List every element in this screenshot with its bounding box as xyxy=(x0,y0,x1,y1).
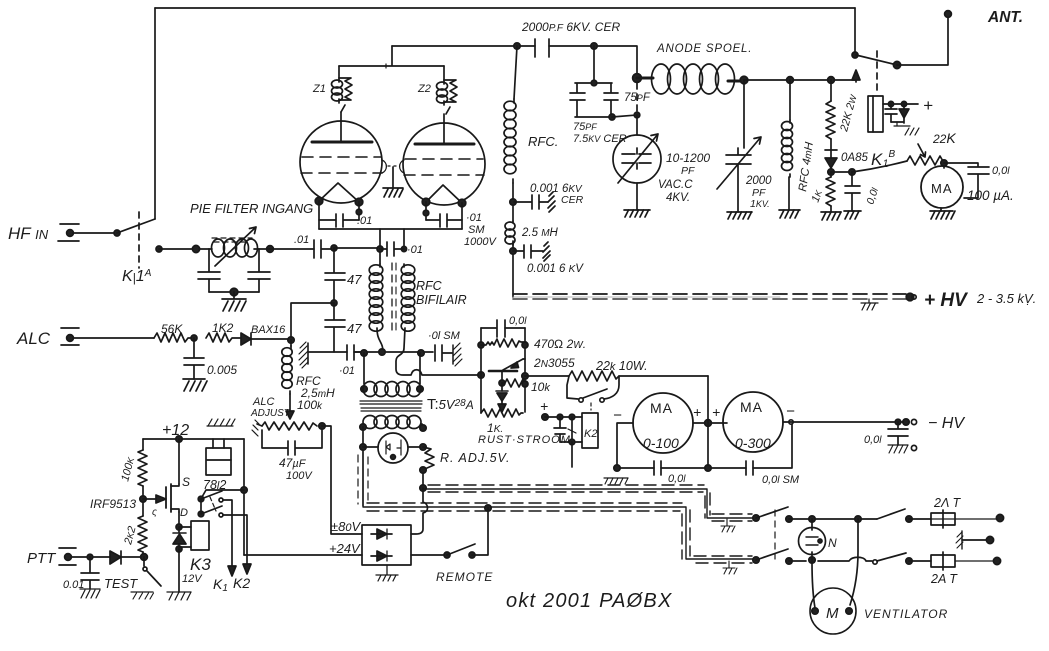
rectifier box 80/24 xyxy=(362,525,411,565)
capacitor 0,01 SM MA2 xyxy=(746,461,753,475)
svg-text:·01: ·01 xyxy=(407,244,423,256)
node K2 plus terminal xyxy=(542,414,548,420)
svg-text:REMOTE: REMOTE xyxy=(436,570,493,584)
ground hatched .01 SM xyxy=(453,343,462,366)
svg-text:ς: ς xyxy=(152,507,157,518)
connector ALC J2 xyxy=(61,328,154,345)
potentiometer 22K xyxy=(907,144,944,168)
svg-text:BAX16: BAX16 xyxy=(251,324,286,336)
capacitor 0,01 meter xyxy=(944,163,989,198)
svg-text:100k: 100k xyxy=(297,398,323,412)
ground grid-leak hatched xyxy=(299,342,308,368)
node gate xyxy=(140,496,146,502)
svg-text:.01: .01 xyxy=(357,215,372,227)
svg-text:.01: .01 xyxy=(294,234,309,246)
svg-text:D: D xyxy=(180,507,188,519)
wire filament right xyxy=(420,444,426,450)
resistor 56K xyxy=(154,333,196,342)
node +HV terminal xyxy=(906,293,914,301)
diode bias xyxy=(496,383,508,412)
potentiometer 1K ruststroom xyxy=(481,409,523,417)
switch 22K bypass xyxy=(567,376,619,410)
node plate feed xyxy=(514,43,520,49)
svg-text:2N3055: 2N3055 xyxy=(533,356,575,370)
ground pi filter xyxy=(222,292,246,311)
svg-text:R. ADJ.5V.: R. ADJ.5V. xyxy=(440,451,510,465)
svg-text:+: + xyxy=(540,398,548,414)
svg-text:M: M xyxy=(826,605,839,622)
relay coil K1B xyxy=(868,96,883,132)
node pot right xyxy=(319,423,325,429)
svg-text:− HV: − HV xyxy=(928,415,965,432)
lamp N neon xyxy=(799,519,826,560)
potentiometer ALC ADJUST xyxy=(252,411,317,436)
ground 2000PF xyxy=(727,212,752,219)
relay K1B dashed linkage xyxy=(876,51,878,95)
svg-text:IRF9513: IRF9513 xyxy=(90,497,136,511)
wire drain chain xyxy=(178,512,180,527)
svg-text:75PF: 75PF xyxy=(573,121,597,133)
node 75pF top xyxy=(593,46,595,83)
wire to 22K 10W xyxy=(525,375,569,377)
svg-text:±80V: ±80V xyxy=(331,519,362,534)
svg-text:1K.: 1K. xyxy=(487,421,503,435)
svg-text:100 µA.: 100 µA. xyxy=(967,188,1014,203)
svg-text:ANODE SPOEL.: ANODE SPOEL. xyxy=(656,43,752,55)
wire to pi filter xyxy=(159,248,209,250)
svg-text:−: − xyxy=(613,407,622,424)
switch fan lower xyxy=(873,553,931,564)
wire meters bottom rail xyxy=(617,424,792,468)
svg-text:BIFILAIR: BIFILAIR xyxy=(416,293,467,307)
node diode out xyxy=(828,169,834,175)
svg-text:N: N xyxy=(828,536,837,550)
ground meter xyxy=(930,211,955,219)
node 47 top junction xyxy=(331,245,337,251)
wire cathode rail xyxy=(319,228,462,230)
wire diode node right xyxy=(831,171,852,173)
capacitor .01 SM xyxy=(435,345,452,361)
capacitor pi input xyxy=(198,249,220,292)
svg-text:·0l SM: ·0l SM xyxy=(428,330,461,342)
svg-text:12V: 12V xyxy=(182,573,203,585)
node ANT relay pivot xyxy=(852,52,858,58)
svg-text:+: + xyxy=(712,404,720,420)
transformer T secondary xyxy=(360,416,426,432)
svg-text:4KV.: 4KV. xyxy=(666,192,690,204)
capacitor 0,01 bias xyxy=(497,320,505,337)
svg-text:0A85: 0A85 xyxy=(841,152,868,164)
node HT junction xyxy=(591,43,597,49)
node anode coil out xyxy=(740,76,748,84)
svg-text:2000: 2000 xyxy=(745,175,772,187)
svg-text:Z2: Z2 xyxy=(417,83,431,95)
core transformer T xyxy=(360,401,422,411)
wire fan feed right xyxy=(850,519,858,605)
wire RFC to node xyxy=(512,183,514,221)
capacitor .01 V2 cathode xyxy=(426,214,462,227)
capacitor 47 lower xyxy=(325,303,345,352)
capacitor .01 (grid return) xyxy=(347,345,364,360)
wire left drop to K1A xyxy=(154,8,156,219)
wire drain to ground xyxy=(178,549,180,592)
wire 7812 out down xyxy=(243,439,245,555)
switch TEST xyxy=(131,557,161,599)
node R adj bottom xyxy=(420,467,426,473)
node meters mid xyxy=(705,420,712,427)
ground RFC 4mH xyxy=(779,210,800,218)
svg-text:TEST: TEST xyxy=(104,576,138,591)
valve filament indicator xyxy=(363,433,423,463)
relay K3 xyxy=(179,521,209,550)
ground 0.005 xyxy=(183,379,207,391)
svg-text:Z1: Z1 xyxy=(312,83,326,95)
transistor IRF9513 xyxy=(143,484,179,512)
svg-text:VENTILATOR: VENTILATOR xyxy=(864,607,948,621)
svg-text:·01: ·01 xyxy=(339,365,355,377)
rectifier network K1B xyxy=(883,101,919,135)
wire filament left xyxy=(362,427,364,506)
wire V1 cathode drops xyxy=(319,201,359,229)
resistor R ADJ 5V xyxy=(423,447,434,487)
inductor RFC plate choke xyxy=(504,99,516,183)
wire bias module left rail xyxy=(480,328,482,413)
fuse 2AT upper xyxy=(931,510,1004,528)
ground 0.01 PTT xyxy=(80,589,100,598)
contact K1 aux xyxy=(198,490,244,576)
inductor RFC 4mH xyxy=(782,80,793,210)
svg-text:+24V: +24V xyxy=(329,541,361,556)
wire bifilar to bias module xyxy=(396,328,481,375)
svg-text:0,0l: 0,0l xyxy=(864,434,882,446)
svg-text:HF IN: HF IN xyxy=(8,224,49,243)
capacitor 47uF 100V xyxy=(262,430,322,455)
valve V1 xyxy=(300,112,382,206)
shield dashes filament lead xyxy=(357,455,359,504)
node ALC junction xyxy=(191,335,197,341)
wire right drop to ANT relay xyxy=(854,8,856,55)
wire grid return rail xyxy=(354,351,433,353)
inductor 2.5MH xyxy=(505,221,515,297)
inductor pi-filter variable coil xyxy=(209,227,259,266)
switch mains lower xyxy=(753,549,872,564)
svg-text:2 - 3.5 kṾ.: 2 - 3.5 kṾ. xyxy=(976,291,1036,306)
svg-text:22K: 22K xyxy=(932,130,956,146)
wire ground to cap xyxy=(308,351,347,353)
ground vacuum cap xyxy=(624,210,650,217)
relay K1A dashed linkage xyxy=(138,212,140,268)
ground 1K xyxy=(821,212,841,220)
ground HV bus xyxy=(861,299,878,310)
svg-text:PF: PF xyxy=(681,165,695,177)
node remote tap xyxy=(485,505,491,511)
capacitor 0.005 xyxy=(184,338,204,379)
meter MA 0-100 xyxy=(617,393,727,468)
svg-text:K2: K2 xyxy=(233,575,250,591)
svg-text:1KV.: 1KV. xyxy=(750,198,770,210)
capacitor 2000pF 6KV xyxy=(535,39,549,57)
switch fan upper xyxy=(877,509,931,522)
ground 0,01 xyxy=(844,211,861,219)
inductor RFC bifilair left xyxy=(369,264,383,352)
svg-text:0,0l: 0,0l xyxy=(509,315,527,327)
switch K1A arm xyxy=(117,219,155,233)
capacitor 0.001 6KV CER xyxy=(514,192,555,212)
wire node to pot xyxy=(852,161,907,172)
arrow plate line to relay xyxy=(855,76,857,82)
svg-text:0.001 6 KV: 0.001 6 KV xyxy=(527,263,584,275)
connector PTT xyxy=(59,548,110,565)
svg-text:RFC.: RFC. xyxy=(528,134,558,149)
svg-text:47µF: 47µF xyxy=(279,456,307,470)
wire coupling node to grid line xyxy=(334,247,380,249)
wire 47 mid to BAX junction xyxy=(291,303,334,340)
capacitor 0.001 6KV lower xyxy=(513,242,550,261)
resistor 100K xyxy=(138,439,147,516)
svg-text:·01: ·01 xyxy=(466,212,482,224)
wire bias module top rail xyxy=(481,327,525,329)
capacitor 0,01 (K1B) xyxy=(845,172,860,211)
ground bus B stub1 xyxy=(721,519,735,532)
diode 0A85 xyxy=(825,150,837,172)
wire -HV line xyxy=(791,421,906,423)
capacitor 0.01 PTT xyxy=(81,557,99,589)
svg-text:SM: SM xyxy=(468,224,485,236)
wire source up xyxy=(178,439,180,484)
svg-text:47: 47 xyxy=(347,321,362,336)
node collector out xyxy=(522,373,528,379)
node anode xyxy=(633,74,642,83)
svg-text:+: + xyxy=(923,96,933,115)
regulator 7812 xyxy=(206,419,235,475)
resistor 2K2 xyxy=(138,516,147,558)
link anode dashed xyxy=(636,83,638,113)
svg-text:2A T: 2A T xyxy=(930,572,958,586)
svg-text:0.005: 0.005 xyxy=(207,363,237,377)
core bifilair dashed xyxy=(391,263,393,331)
svg-text:VAC.C: VAC.C xyxy=(658,179,693,191)
svg-text:+12: +12 xyxy=(162,422,189,439)
capacitor 2000PF 1KV variable xyxy=(717,80,761,212)
meter MA 0-300 xyxy=(723,392,793,452)
svg-text:1K2: 1K2 xyxy=(212,321,234,335)
transformer T primary top xyxy=(361,353,423,397)
node 0.001 lower xyxy=(510,248,516,254)
wire plate HT line xyxy=(392,46,637,77)
switch REMOTE xyxy=(411,508,488,558)
resistor 22K 10W xyxy=(569,371,708,381)
node pi output xyxy=(267,246,274,253)
inductor RFC 2,5mH 100K xyxy=(282,340,292,414)
svg-text:56K: 56K xyxy=(161,322,183,336)
svg-text:0,0l: 0,0l xyxy=(992,165,1010,177)
wire K2 to bottom rail xyxy=(571,442,573,467)
node RFC 4mH top xyxy=(787,77,794,84)
svg-text:CER: CER xyxy=(561,194,584,206)
svg-text:ALC: ALC xyxy=(252,396,274,408)
wire pot to 80V feed xyxy=(322,426,362,534)
svg-text:0,0l SM: 0,0l SM xyxy=(762,474,800,486)
bus A upper dashed xyxy=(423,485,756,521)
suppressor Z2 xyxy=(437,66,458,114)
capacitor .01 input coupling xyxy=(314,240,334,258)
inductor RFC bifilair right xyxy=(401,264,415,331)
ground bus B stub2 xyxy=(723,561,737,574)
wire bias module right rail xyxy=(524,328,526,412)
inductor anode spoel xyxy=(637,64,744,94)
fuse 2AT lower xyxy=(931,552,1001,570)
dashed linkage mains switch xyxy=(774,510,776,559)
capacitor .01 grid xyxy=(380,242,404,256)
wire rail drops to grid caps xyxy=(380,229,404,264)
svg-text:47: 47 xyxy=(347,272,362,287)
svg-text:MA: MA xyxy=(740,399,763,415)
transistor 2N3055 xyxy=(489,359,525,383)
bus +HV dashed xyxy=(513,294,906,299)
wire to K2 xyxy=(545,416,582,418)
ground 0,01 HV xyxy=(888,445,908,453)
resistor 22K 2W xyxy=(826,80,835,150)
svg-text:10-1200: 10-1200 xyxy=(666,151,710,165)
wire pi output to cap xyxy=(259,248,314,250)
svg-text:+ HV: + HV xyxy=(924,290,968,311)
svg-text:ANT.: ANT. xyxy=(987,9,1023,26)
svg-text:RUST·STROOM: RUST·STROOM xyxy=(478,434,571,446)
svg-text:−: − xyxy=(786,403,795,420)
svg-text:ALC: ALC xyxy=(16,329,51,348)
resistor 470R 2W xyxy=(478,339,528,348)
svg-text:K3: K3 xyxy=(190,555,211,574)
wire tubes top feed xyxy=(339,46,444,66)
svg-text:2Λ T: 2Λ T xyxy=(933,496,962,510)
node 47 mid junction xyxy=(331,300,337,306)
svg-text:2000P.F 6KV. CER: 2000P.F 6KV. CER xyxy=(521,20,620,34)
node bias in xyxy=(478,372,484,378)
switch ANT relay arm xyxy=(856,55,897,65)
node 22K top xyxy=(828,77,835,84)
switch mains upper xyxy=(753,507,877,522)
svg-text:T:5V28A: T:5V28A xyxy=(427,396,474,413)
motor M ventilator xyxy=(810,562,856,634)
wire top rail xyxy=(155,7,855,9)
wire V2 cathode drops xyxy=(426,202,462,229)
meter MA 100uA xyxy=(921,166,963,211)
wire +12 rail xyxy=(143,438,244,440)
capacitor pi output xyxy=(248,249,270,292)
svg-text:PIE FILTER INGANG: PIE FILTER INGANG xyxy=(190,201,313,216)
svg-text:0-300: 0-300 xyxy=(735,435,771,451)
ground chassis mid xyxy=(956,531,994,549)
relay K2 xyxy=(560,413,598,448)
svg-text:2.5 MH: 2.5 MH xyxy=(521,227,559,239)
resistor 1K xyxy=(826,172,835,212)
bus B lower dashed xyxy=(363,503,756,563)
svg-text:+: + xyxy=(693,404,701,420)
capacitor 75pF pair xyxy=(570,80,637,120)
svg-text:okt 2001 PAØBX: okt 2001 PAØBX xyxy=(506,590,673,612)
grid link between valves xyxy=(382,160,404,188)
svg-text:RFC: RFC xyxy=(416,279,443,293)
wire +24V feed xyxy=(244,554,362,556)
capacitor 47 upper xyxy=(325,248,345,303)
wire pi bottom rail xyxy=(209,291,259,293)
ground meters rail xyxy=(604,478,628,484)
resistor 1K2 xyxy=(206,333,241,342)
capacitor K2 elco xyxy=(554,417,576,442)
svg-text:MA: MA xyxy=(650,400,673,416)
wire down to RFC xyxy=(514,46,517,99)
capacitor .01 V1 cathode xyxy=(319,214,359,227)
svg-text:0-100: 0-100 xyxy=(643,435,679,451)
ground rectifier box xyxy=(376,565,398,581)
diode zener K3 xyxy=(173,527,186,549)
svg-text:K2: K2 xyxy=(584,428,597,440)
diode BAX16 xyxy=(241,333,291,345)
ground grid xyxy=(383,188,403,197)
svg-text:S: S xyxy=(182,475,190,489)
diode PTT xyxy=(110,551,144,564)
wire down with hop xyxy=(411,488,428,534)
svg-text:0,0l: 0,0l xyxy=(668,473,686,485)
svg-text:22k 10W.: 22k 10W. xyxy=(595,359,648,373)
capacitor 0,01 MA1 xyxy=(654,461,661,475)
ground drain xyxy=(167,592,191,600)
svg-text:470Ω 2W.: 470Ω 2W. xyxy=(534,337,586,351)
connector HF IN J1 xyxy=(58,224,120,241)
node pot out xyxy=(941,160,947,166)
suppressor Z1 xyxy=(332,66,353,112)
svg-text:100V: 100V xyxy=(286,470,313,482)
capacitor 0,01 HV xyxy=(888,419,908,445)
contact K2 aux xyxy=(198,497,251,574)
svg-text:10k: 10k xyxy=(531,380,550,394)
resistor 10k xyxy=(502,379,528,387)
valve V2 xyxy=(403,114,485,207)
node PTT junction xyxy=(141,554,148,561)
svg-text:PTT: PTT xyxy=(27,550,57,567)
node BAX16 output xyxy=(288,337,294,343)
svg-text:MA: MA xyxy=(931,181,953,196)
svg-text:ADJUST: ADJUST xyxy=(250,408,291,419)
capacitor vacuum 10-1200pF xyxy=(613,115,661,210)
wire plate line right xyxy=(744,79,855,81)
diode K2 xyxy=(571,417,573,442)
node bus A tap xyxy=(420,485,426,491)
node emitter xyxy=(499,380,505,386)
node K1A lower contact xyxy=(156,246,162,252)
svg-text:1000V: 1000V xyxy=(464,236,497,248)
